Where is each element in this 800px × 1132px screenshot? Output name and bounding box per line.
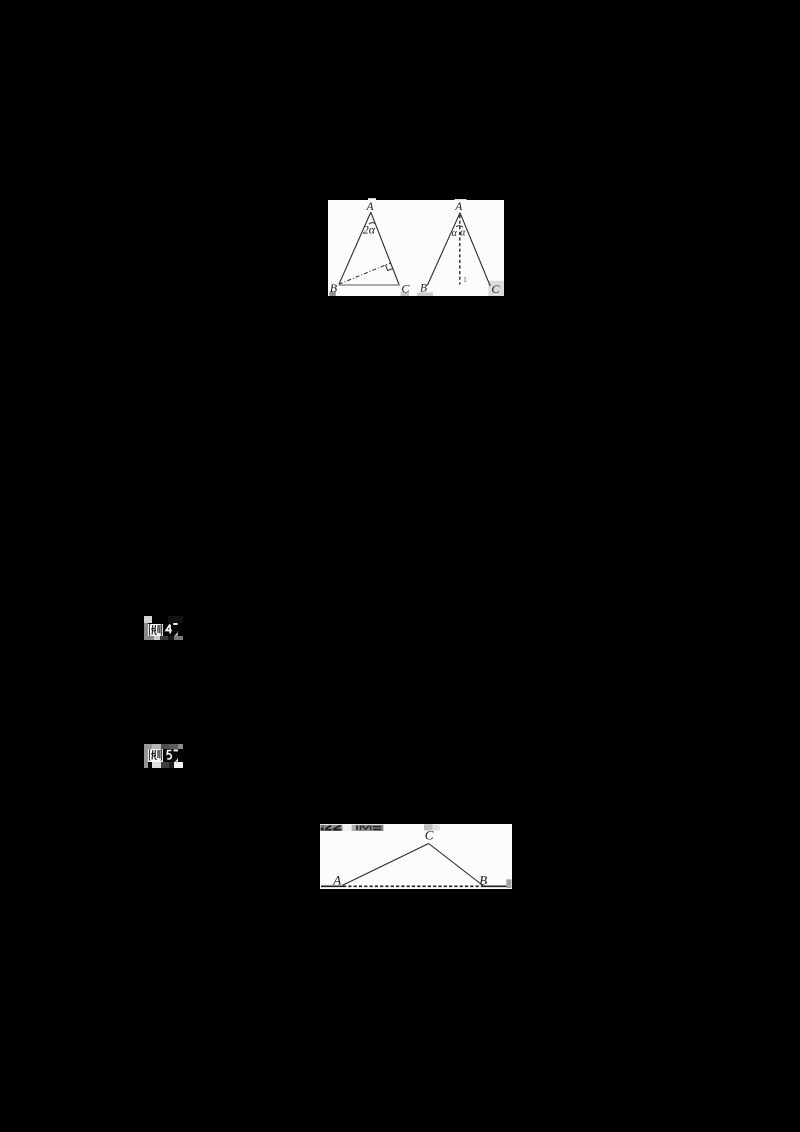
- svg-text:1: 1: [463, 276, 467, 284]
- svg-text:C: C: [491, 281, 500, 295]
- [例] dark glyph: [148, 749, 163, 761]
- svg-text:B: B: [479, 872, 487, 887]
- svg-text:α: α: [451, 227, 457, 238]
- white 4 on black: [163, 623, 178, 636]
- svg-text:A: A: [454, 201, 463, 213]
- dashed AB: [343, 885, 483, 887]
- svg-text:C: C: [425, 827, 434, 842]
- bottom strip: [144, 636, 154, 640]
- side CB: [429, 843, 483, 885]
- angle arc at A (left triangle): [369, 222, 375, 224]
- gray block under C (left triangle): [400, 292, 409, 296]
- angle arc at A (right triangle): [456, 225, 463, 227]
- right triangle side AB: [427, 212, 460, 285]
- left triangle side AB: [339, 212, 371, 284]
- tiny scan bumps above apexes: [368, 198, 376, 200]
- side AC: [343, 843, 429, 885]
- right-angle mark at foot: [385, 264, 393, 270]
- white panel background: [320, 824, 512, 890]
- bottom strip: [152, 762, 161, 768]
- figure panel: distance triangle (bottom): [320, 824, 512, 890]
- gray block bottom-left under B (left triangle): [329, 292, 336, 296]
- svg-text:B: B: [420, 282, 427, 294]
- baseline solid left: [321, 885, 343, 887]
- white 5 on black: [163, 749, 178, 762]
- [例] dark glyph: [148, 624, 163, 636]
- svg-text:2α: 2α: [362, 222, 375, 236]
- dash-dot cevian from B to foot on AC: [339, 262, 391, 284]
- 例5 marker: [144, 744, 184, 768]
- white panel background: [328, 200, 504, 296]
- 例4 marker: [144, 616, 184, 641]
- svg-text:A: A: [365, 201, 374, 213]
- svg-text:α: α: [460, 227, 466, 238]
- gray block bottom-right corner (right triangle C): [488, 280, 504, 295]
- dashed altitude from A: [458, 215, 460, 285]
- svg-text:A: A: [332, 872, 341, 887]
- svg-text:B: B: [329, 281, 337, 295]
- baseline solid right: [483, 885, 508, 887]
- clipped heading strip "3.2 ...": [320, 824, 324, 830]
- gray square at right end: [506, 879, 511, 888]
- left triangle side AC: [370, 212, 398, 285]
- gray blocks above C label: [424, 824, 433, 830]
- svg-text:C: C: [401, 281, 410, 295]
- gray block under B (right triangle): [416, 292, 432, 296]
- figure panel: two triangles (top): [328, 198, 504, 296]
- left triangle base BC (gray): [338, 284, 399, 286]
- dark glyph fragments in heading: [321, 827, 324, 829]
- right triangle side AC: [460, 212, 490, 285]
